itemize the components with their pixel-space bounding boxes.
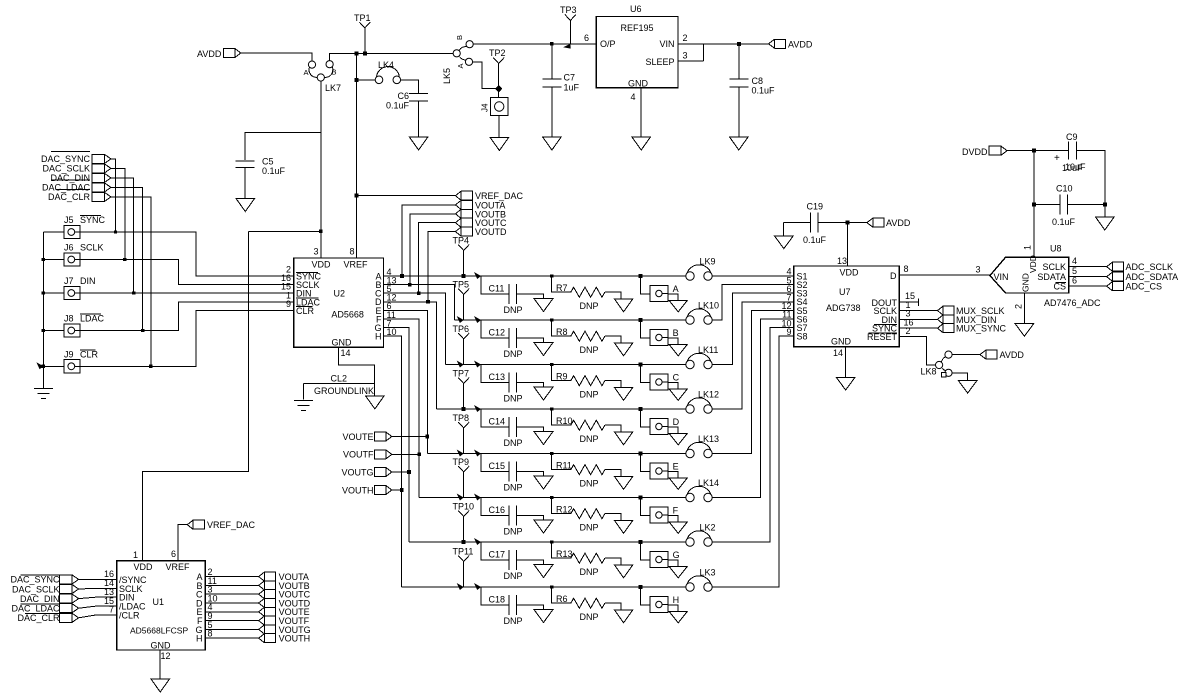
wire J5 to U2 SYNC pin 2 <box>80 232 294 276</box>
svg-text:DAC_SCLK: DAC_SCLK <box>42 164 90 174</box>
svg-text:R13: R13 <box>556 549 573 559</box>
jumper LK4 <box>375 60 400 84</box>
ground (R13) <box>614 565 633 578</box>
node junction TP2/J4 <box>495 85 502 93</box>
svg-text:DNP: DNP <box>504 438 523 448</box>
ground (C15) <box>534 476 553 489</box>
svg-text:J9: J9 <box>64 349 74 359</box>
svg-text:GND: GND <box>628 79 649 89</box>
signal flag VOUTH (U1) <box>259 634 311 644</box>
wire U1 E to VOUTE flag <box>205 611 259 613</box>
svg-text:C9: C9 <box>1066 132 1078 142</box>
jumper LK10 <box>686 301 719 325</box>
capacitor C16 DNP <box>474 494 543 537</box>
U2 left pin numbers <box>281 265 291 309</box>
wire C5 branch <box>245 132 321 160</box>
svg-text:3: 3 <box>683 51 688 61</box>
svg-text:CLR: CLR <box>296 306 315 316</box>
wire J9 to U2 CLR pin 9 <box>36 310 293 369</box>
ground (C18) <box>534 610 553 623</box>
power flag AVDD (right of U6) <box>769 39 813 49</box>
svg-text:SDATA: SDATA <box>1037 272 1066 282</box>
svg-text:10uF: 10uF <box>1065 162 1086 172</box>
wire LK5-B to REF195 O/P rail <box>473 43 596 45</box>
capacitor C13 DNP <box>474 361 543 404</box>
signal flag VREF_DAC (U1) <box>178 520 256 560</box>
svg-text:AVDD: AVDD <box>788 39 813 49</box>
wire U2 pin A to row A <box>384 275 464 277</box>
svg-text:F: F <box>673 506 679 516</box>
ground (C11) <box>534 299 553 312</box>
wire node to C10 <box>1034 203 1060 205</box>
U1 right pin numbers <box>208 567 218 639</box>
wire U2 pin H to row H <box>384 336 402 587</box>
svg-text:E: E <box>673 462 679 472</box>
capacitor C11 DNP <box>474 272 543 315</box>
svg-text:9: 9 <box>286 299 291 309</box>
capacitor C14 DNP <box>474 405 543 448</box>
svg-text:R9: R9 <box>556 372 568 382</box>
connector J6 SCLK <box>64 243 104 267</box>
wire U1 H to VOUTH flag <box>205 637 259 639</box>
ground (R6) <box>614 610 633 623</box>
signal flag DAC_LDAC (U1) <box>11 604 78 614</box>
wire U2 pin F to row F <box>384 319 420 498</box>
svg-text:H: H <box>673 595 680 605</box>
svg-text:R11: R11 <box>556 461 572 471</box>
svg-text:8: 8 <box>350 247 355 257</box>
svg-text:VDD: VDD <box>1028 255 1038 273</box>
signal flag VOUTD (U1) <box>259 598 311 608</box>
ground (connector E) <box>669 478 688 490</box>
svg-text:DNP: DNP <box>504 483 523 493</box>
svg-text:C14: C14 <box>489 417 506 427</box>
test point TP11 <box>453 547 474 591</box>
svg-text:C19: C19 <box>807 202 824 212</box>
test point TP4 <box>453 236 470 279</box>
jumper LK9 <box>686 257 716 281</box>
svg-text:C6: C6 <box>397 91 409 101</box>
svg-text:CLR: CLR <box>80 349 99 359</box>
wire U2 pin E to row E <box>384 310 428 453</box>
ground (connector F) <box>669 522 688 534</box>
svg-text:0.1uF: 0.1uF <box>1052 217 1076 227</box>
svg-text:C7: C7 <box>564 73 576 83</box>
svg-text:S8: S8 <box>797 332 808 342</box>
svg-text:GND: GND <box>332 338 353 348</box>
resistor R13 DNP <box>550 540 621 577</box>
wire VOUTA to U2 pin <box>400 205 455 278</box>
ground (triangle, groundlink right) <box>366 396 385 409</box>
ground (connector A) <box>669 300 688 312</box>
wire VOUTH to output column <box>392 488 404 492</box>
wire U1 F to VOUTF flag <box>205 620 259 622</box>
svg-text:C8: C8 <box>752 76 764 86</box>
connector J9 CLR <box>64 349 99 373</box>
wire U1 G to VOUTG flag <box>205 628 259 630</box>
capacitor C8 <box>729 44 775 137</box>
svg-text:12: 12 <box>161 651 171 661</box>
svg-text:DAC_DIN: DAC_DIN <box>20 594 60 604</box>
wire J ground bus <box>42 232 44 388</box>
signal flag VOUTC (U1) <box>259 590 311 600</box>
svg-text:4: 4 <box>1072 256 1077 266</box>
svg-text:A: A <box>456 63 465 68</box>
svg-text:0.1uF: 0.1uF <box>386 101 410 111</box>
ground (C8) <box>730 137 749 150</box>
svg-text:SCLK: SCLK <box>1042 262 1066 272</box>
ground (U7 GND) <box>836 378 855 391</box>
svg-text:C10: C10 <box>1056 184 1073 194</box>
svg-text:VREF: VREF <box>344 260 369 270</box>
svg-text:DVDD: DVDD <box>962 147 988 157</box>
svg-text:TP1: TP1 <box>354 13 371 23</box>
signal flag VOUTH <box>342 485 392 495</box>
svg-text:AVDD: AVDD <box>197 49 222 59</box>
svg-text:U8: U8 <box>1050 244 1062 254</box>
wire row B to U7 S2 <box>712 285 794 320</box>
signal flag VOUTF (U1) <box>259 616 310 626</box>
ground (R10) <box>614 432 633 445</box>
wire bus to J6 <box>42 258 64 261</box>
jumper LK3 <box>686 568 716 592</box>
node junction C7 <box>550 42 553 45</box>
svg-text:LK4: LK4 <box>378 60 394 70</box>
wire bus to J8 <box>42 329 64 332</box>
node F row wire <box>419 497 686 499</box>
test point TP2 <box>489 48 506 98</box>
signal flag VOUTG <box>341 467 391 477</box>
signal flag VOUTE (U1) <box>259 607 310 617</box>
jumper LK2 <box>686 523 716 547</box>
svg-text:C16: C16 <box>489 505 506 515</box>
svg-text:TP9: TP9 <box>453 457 470 467</box>
svg-text:DNP: DNP <box>504 305 523 315</box>
wire C10 to ground node <box>1068 202 1107 206</box>
wire VOUTC to U2 pin <box>417 223 456 295</box>
svg-text:MUX_SYNC: MUX_SYNC <box>956 324 1007 334</box>
wire DVDD vertical to U8 VDD pin 1 <box>1032 151 1036 258</box>
svg-text:ADG738: ADG738 <box>826 303 861 313</box>
svg-text:DAC_CLR: DAC_CLR <box>48 192 91 202</box>
svg-text:U6: U6 <box>630 4 642 14</box>
svg-text:C: C <box>673 373 680 383</box>
svg-text:LK5: LK5 <box>442 68 452 84</box>
svg-text:AD7476_ADC: AD7476_ADC <box>1044 298 1101 308</box>
wire rail to U2 VREF pin 8 <box>355 53 357 258</box>
wire U7 SCLK pin 1 to MUX_SCLK <box>899 300 937 311</box>
svg-text:D: D <box>673 417 680 427</box>
connector J8 LDAC <box>64 314 105 338</box>
voltage reference U6 REF195 <box>584 4 678 89</box>
jumper LK12 <box>686 390 719 414</box>
svg-text:1: 1 <box>1023 245 1033 250</box>
wire node to C9 <box>1034 150 1069 152</box>
capacitor C6 <box>386 91 428 137</box>
svg-text:DNP: DNP <box>504 394 523 404</box>
svg-text:CL2: CL2 <box>331 374 348 384</box>
svg-text:DAC_DIN: DAC_DIN <box>50 173 90 183</box>
svg-text:LK2: LK2 <box>700 523 716 533</box>
svg-text:J8: J8 <box>64 314 74 324</box>
svg-text:VDD: VDD <box>840 268 860 278</box>
svg-text:VIN: VIN <box>994 272 1009 282</box>
wire J6 to U2 SCLK pin 16 <box>80 260 294 285</box>
jumper LK8 <box>921 351 953 377</box>
wire VOUTB to U2 pin <box>408 214 455 287</box>
connector B (SMB) <box>639 318 679 345</box>
U2 right pin numbers <box>387 267 397 337</box>
svg-text:REF195: REF195 <box>620 23 653 33</box>
svg-text:LK8: LK8 <box>921 367 937 377</box>
ground (C7) <box>543 137 562 150</box>
wire DAC_CLR to J-row <box>111 197 153 368</box>
svg-text:D: D <box>890 271 897 281</box>
svg-text:14: 14 <box>833 348 843 358</box>
svg-text:VOUTH: VOUTH <box>279 634 311 644</box>
test point TP6 <box>453 324 470 368</box>
wire U7 VDD pin 13 <box>837 223 847 266</box>
svg-text:C5: C5 <box>262 157 274 167</box>
power flag AVDD (top left) <box>197 49 241 60</box>
connector D (SMB) <box>639 407 680 434</box>
svg-text:TP11: TP11 <box>453 547 474 557</box>
signal flag VOUTC (mid) <box>455 218 507 228</box>
wire U1 GND pin 12 <box>160 650 171 679</box>
wire U2 pin C to row C <box>384 293 446 364</box>
connector H (SMB) <box>639 585 680 612</box>
svg-text:SCLK: SCLK <box>80 243 104 253</box>
svg-text:5: 5 <box>1072 266 1077 276</box>
signal flag ADC_CS <box>1107 282 1162 292</box>
svg-text:B: B <box>673 328 679 338</box>
resistor R9 DNP <box>550 363 621 400</box>
test point TP10 <box>453 502 475 545</box>
U2 output letters A-H <box>374 271 382 341</box>
connector G (SMB) <box>639 540 680 567</box>
capacitor C12 DNP <box>474 316 543 359</box>
wire VOUTG to output column <box>392 470 411 474</box>
connector C (SMB) <box>639 363 680 390</box>
svg-text:H: H <box>375 332 382 342</box>
DAC U2 AD5668 <box>294 247 384 348</box>
svg-text:A: A <box>673 284 679 294</box>
svg-text:10: 10 <box>387 327 397 337</box>
svg-text:GND: GND <box>831 337 852 347</box>
wire U2 GND pin 14 to groundlink <box>338 347 374 396</box>
svg-text:U2: U2 <box>334 289 346 299</box>
svg-text:J6: J6 <box>64 243 74 253</box>
U1 left pin numbers <box>104 569 114 614</box>
svg-text:DNP: DNP <box>504 349 523 359</box>
ground (R7) <box>614 299 633 312</box>
svg-text:GND: GND <box>1021 273 1031 292</box>
jumper LK13 <box>686 434 719 458</box>
svg-text:6: 6 <box>584 33 589 43</box>
wire U8 SDATA pin 5 to flag <box>1069 266 1107 277</box>
wire DAC_LDAC to U1 pin 15 <box>79 606 117 608</box>
wire bus to J7 <box>42 291 64 294</box>
connector J7 DIN <box>64 276 96 300</box>
signal flag VOUTD (mid) <box>455 227 507 237</box>
svg-text:1uF: 1uF <box>564 83 580 93</box>
svg-text:1: 1 <box>133 550 138 560</box>
capacitor C19 <box>784 202 867 246</box>
svg-text:R10: R10 <box>556 416 573 426</box>
U7 left pin numbers <box>781 267 791 337</box>
wire U1 D to VOUTD flag <box>205 602 259 604</box>
wire LK7 common down to U2 VDD pin 3 <box>320 81 322 258</box>
wire U2 pin B to row B <box>384 285 455 320</box>
wire U7 SYNC pin 16 to MUX_SYNC <box>899 317 937 328</box>
svg-text:TP4: TP4 <box>453 236 470 246</box>
svg-text:14: 14 <box>341 348 351 358</box>
signal flag DAC_SYNC (top) <box>41 152 111 165</box>
svg-text:DIN: DIN <box>80 276 96 286</box>
ground (connector H) <box>669 611 688 623</box>
wire U8 SCLK pin 4 to flag <box>1069 256 1107 267</box>
svg-text:3: 3 <box>314 247 319 257</box>
wire DAC_DIN to J-row <box>111 178 135 295</box>
ground (C19) <box>775 223 794 249</box>
wire VOUTF to output column <box>392 453 421 457</box>
svg-text:LK14: LK14 <box>698 478 719 488</box>
svg-text:U1: U1 <box>153 597 165 607</box>
svg-text:CS: CS <box>1053 282 1066 292</box>
svg-text:VREF: VREF <box>166 562 191 572</box>
ground (connector C) <box>669 389 688 401</box>
signal flag DAC_DIN (U1) <box>20 594 79 604</box>
svg-text:R8: R8 <box>556 327 568 337</box>
signal flag MUX_DIN <box>938 315 997 325</box>
svg-text:VOUTG: VOUTG <box>341 467 373 477</box>
svg-text:SYNC: SYNC <box>80 215 106 225</box>
signal flag DAC_LDAC (top) <box>42 180 111 193</box>
wire LK8 top to AVDD <box>952 354 980 356</box>
wire DAC_DIN to U1 pin 13 <box>79 597 117 599</box>
svg-text:C17: C17 <box>489 550 506 560</box>
ground (C12) <box>534 343 553 356</box>
svg-text:TP8: TP8 <box>453 413 470 423</box>
ground (J4) <box>490 138 509 151</box>
ground (connector G) <box>669 566 688 578</box>
svg-text:0.1uF: 0.1uF <box>803 235 827 245</box>
svg-text:TP10: TP10 <box>453 502 475 512</box>
svg-text:LK3: LK3 <box>700 568 716 578</box>
svg-text:DNP: DNP <box>580 612 599 622</box>
svg-text:DAC_SYNC: DAC_SYNC <box>41 154 91 164</box>
connector J5 SYNC <box>64 215 106 239</box>
wire U6 SLEEP pin 3 tied to VIN <box>678 44 703 61</box>
wire U7 GND pin 14 <box>833 347 845 378</box>
jumper LK5 <box>442 35 473 84</box>
svg-text:DNP: DNP <box>580 345 599 355</box>
test point TP1 <box>354 13 371 55</box>
wire VDD link to U1 (branch at y231) <box>249 230 323 233</box>
wire J8 to U2 LDAC pin 1 <box>80 302 294 331</box>
node C row wire <box>445 364 686 366</box>
svg-text:DNP: DNP <box>580 478 599 488</box>
svg-text:DNP: DNP <box>504 571 523 581</box>
wire DAC_SCLK to U1 pin 14 <box>79 587 117 590</box>
svg-text:2: 2 <box>906 326 911 336</box>
test point TP8 <box>453 413 470 457</box>
capacitor C5 <box>236 157 286 199</box>
signal flag DAC_CLR (top) <box>48 190 111 203</box>
wire DAC_SCLK to J-row <box>111 168 127 261</box>
capacitor C15 DNP <box>474 450 543 493</box>
jumper LK11 <box>686 345 719 369</box>
wire DAC_LDAC to J-row <box>111 187 144 332</box>
node E row wire <box>427 453 686 455</box>
wire row F to U7 S6 <box>712 319 794 498</box>
DAC U1 AD5668LFCSP <box>117 549 206 650</box>
svg-text:B: B <box>332 68 337 77</box>
svg-text:13: 13 <box>837 256 847 266</box>
svg-text:DAC_SYNC: DAC_SYNC <box>10 575 60 585</box>
signal flag VOUTB (U1) <box>259 581 310 591</box>
svg-text:DNP: DNP <box>504 616 523 626</box>
wire VDD rail down to U1 pin 1 <box>142 231 248 560</box>
svg-text:LK13: LK13 <box>698 434 719 444</box>
wire LK8 bottom to ground <box>952 373 967 381</box>
wire LK5-A to TP2/J4 node <box>473 62 497 89</box>
svg-text:R7: R7 <box>556 283 568 293</box>
wire row E to U7 S5 <box>712 310 794 453</box>
svg-text:DNP: DNP <box>580 567 599 577</box>
node A row wire <box>384 275 686 277</box>
svg-text:TP3: TP3 <box>560 5 577 15</box>
capacitor C17 DNP <box>474 538 543 581</box>
wire U2 pin D to row D <box>384 302 437 409</box>
wire U6 VIN pin 2 <box>678 33 703 44</box>
capacitor C10 <box>1052 184 1076 228</box>
node junction LK4 branch <box>354 78 358 82</box>
signal flag DAC_DIN (top) <box>50 173 111 183</box>
svg-text:VOUTD: VOUTD <box>475 227 507 237</box>
wire U7 D pin 8 to U8 VIN pin 3 <box>899 264 990 275</box>
svg-text:GND: GND <box>151 641 172 651</box>
wire U2 pin G to row G <box>384 328 410 542</box>
wire row H to U7 S8 <box>712 336 794 587</box>
svg-text:ADC_SCLK: ADC_SCLK <box>1126 262 1174 272</box>
wire to LK4 <box>356 79 375 81</box>
wire DVDD to C9/C10 node <box>1007 149 1036 153</box>
connector E (SMB) <box>639 452 679 479</box>
svg-text:TP7: TP7 <box>453 369 470 379</box>
svg-text:AD5668: AD5668 <box>331 310 364 320</box>
ground (R12) <box>614 520 633 533</box>
svg-text:LDAC: LDAC <box>80 314 105 324</box>
svg-text:J7: J7 <box>64 276 74 286</box>
svg-text:AVDD: AVDD <box>1000 350 1025 360</box>
svg-text:LK12: LK12 <box>698 390 719 400</box>
test point TP9 <box>453 457 470 501</box>
svg-text:DNP: DNP <box>580 301 599 311</box>
resistor R10 DNP <box>550 407 621 444</box>
ground (LK8) <box>958 381 977 394</box>
mux U7 ADG738 <box>794 266 899 347</box>
svg-text:0.1uF: 0.1uF <box>752 86 776 96</box>
U1 output letters A-H <box>195 572 203 644</box>
svg-text:TP2: TP2 <box>489 48 506 58</box>
svg-text:SLEEP: SLEEP <box>645 57 674 67</box>
svg-text:0.1uF: 0.1uF <box>262 166 286 176</box>
svg-text:3: 3 <box>976 264 981 274</box>
svg-text:U7: U7 <box>839 287 851 297</box>
ground (U6 GND) <box>632 137 651 150</box>
ground (R8) <box>614 343 633 356</box>
